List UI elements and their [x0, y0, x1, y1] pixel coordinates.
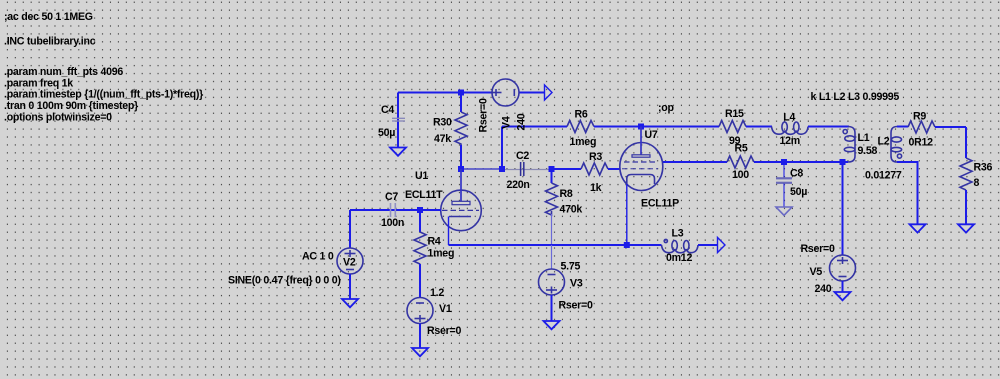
- svg-text:R36: R36: [974, 162, 993, 174]
- svg-text:V1: V1: [439, 303, 452, 315]
- ground R36: [958, 224, 974, 232]
- svg-text:.INC tubelibrary.inc: .INC tubelibrary.inc: [4, 36, 96, 48]
- ground V5: [835, 292, 851, 300]
- svg-text:R6: R6: [575, 109, 588, 121]
- wire V2 to U1 grid: [350, 209, 441, 211]
- svg-text:C7: C7: [385, 191, 398, 203]
- svg-text:V4: V4: [501, 116, 513, 129]
- port flag out V4: [545, 85, 553, 100]
- junction U7 cathode: [624, 242, 630, 248]
- svg-text:1meg: 1meg: [570, 136, 597, 148]
- ground C4: [390, 148, 406, 156]
- capacitor C8: [776, 162, 807, 207]
- svg-text:L1: L1: [858, 132, 870, 144]
- svg-text:1meg: 1meg: [428, 248, 455, 260]
- voltage source V3: [539, 245, 593, 321]
- svg-text:1.2: 1.2: [430, 287, 444, 299]
- resistor R15: [719, 108, 772, 147]
- resistor R36: [960, 127, 993, 224]
- svg-text:V3: V3: [570, 278, 583, 290]
- resistor R3: [581, 151, 620, 194]
- inductor L1: [843, 127, 877, 163]
- junction R8 top: [549, 166, 555, 172]
- ground V3: [544, 321, 560, 329]
- svg-text:240: 240: [516, 113, 528, 130]
- svg-text:.tran 0 100m 90m {timestep}: .tran 0 100m 90m {timestep}: [4, 100, 138, 112]
- svg-text:k L1 L2 L3 0.99995: k L1 L2 L3 0.99995: [811, 91, 900, 103]
- svg-text:.options plotwinsize=0: .options plotwinsize=0: [4, 111, 112, 123]
- wire L4 to L1: [808, 126, 849, 128]
- ground L2: [910, 224, 926, 232]
- svg-text:470k: 470k: [560, 204, 583, 216]
- junction U7 plate: [638, 124, 644, 130]
- svg-text:V2: V2: [343, 257, 356, 269]
- svg-text:C2: C2: [516, 150, 529, 162]
- svg-text:240: 240: [815, 283, 832, 295]
- svg-text:5.75: 5.75: [561, 261, 581, 273]
- voltage source V1: [407, 287, 461, 348]
- svg-text:R15: R15: [725, 108, 744, 120]
- wire anode rail y126.5 left part: [502, 126, 567, 128]
- capacitor C7: [381, 191, 404, 229]
- svg-text:.param num_fft_pts 4096: .param num_fft_pts 4096: [4, 66, 123, 78]
- svg-text:9.58: 9.58: [858, 145, 878, 157]
- junction R30 top: [458, 90, 464, 96]
- ground V2: [342, 299, 358, 307]
- svg-text:50µ: 50µ: [378, 127, 395, 139]
- svg-text:1k: 1k: [590, 182, 602, 194]
- wire U7 screen to R5: [663, 161, 727, 163]
- ground V1: [412, 348, 428, 356]
- voltage source V2: [228, 210, 363, 299]
- inductor L3: [662, 228, 699, 265]
- wire L2 top to R9: [897, 126, 908, 128]
- svg-text:C4: C4: [381, 104, 394, 116]
- inductor L4: [772, 112, 809, 148]
- svg-text:.param freq 1k: .param freq 1k: [4, 77, 73, 89]
- svg-text:0R12: 0R12: [909, 137, 934, 149]
- wire C2 link pale: [502, 169, 552, 171]
- wire V4 to port: [519, 92, 545, 94]
- svg-text:L4: L4: [783, 112, 795, 124]
- svg-text:100: 100: [732, 169, 749, 181]
- junction C8: [781, 159, 787, 165]
- svg-text:100n: 100n: [381, 217, 404, 229]
- port flag out L3: [718, 238, 726, 253]
- svg-text:Rser=0: Rser=0: [801, 243, 835, 255]
- junction C7 R4: [417, 207, 423, 213]
- triode U1: [405, 169, 481, 245]
- svg-text:Rser=0: Rser=0: [559, 300, 593, 312]
- svg-text:R30: R30: [433, 117, 452, 129]
- svg-text:12m: 12m: [780, 135, 800, 147]
- svg-text:R9: R9: [913, 111, 926, 123]
- resistor R4: [414, 210, 454, 298]
- capacitor C2: [507, 150, 530, 191]
- svg-text:50µ: 50µ: [790, 186, 807, 198]
- svg-text:L3: L3: [672, 228, 684, 240]
- capacitor C4: [378, 93, 405, 148]
- svg-text:ECL11T: ECL11T: [405, 189, 443, 201]
- svg-text:C8: C8: [790, 168, 803, 180]
- wire cathode rail y245: [449, 244, 662, 246]
- svg-text:ECL11P: ECL11P: [641, 198, 679, 210]
- svg-text:R8: R8: [560, 188, 573, 200]
- wire L1 to junction: [843, 161, 849, 163]
- svg-text:V5: V5: [810, 266, 823, 278]
- svg-text:8: 8: [974, 177, 980, 189]
- svg-text:R5: R5: [735, 143, 748, 155]
- wire C2 to R3: [552, 168, 582, 170]
- resistor R9: [908, 111, 966, 149]
- ground C8: [776, 207, 792, 215]
- wire L2 bottom to ground: [897, 162, 918, 224]
- svg-text:47k: 47k: [434, 133, 451, 145]
- wire L3 to port: [698, 244, 718, 246]
- svg-text:220n: 220n: [507, 179, 530, 191]
- svg-text:.param timestep {1/((num_fft_p: .param timestep {1/((num_fft_pts-1)*freq…: [4, 89, 203, 101]
- svg-text:R4: R4: [428, 236, 441, 248]
- wire B+ rail left: [398, 92, 492, 94]
- voltage source V5: [801, 243, 856, 295]
- svg-text:Rser=0: Rser=0: [478, 98, 490, 132]
- inductor L2: [865, 127, 902, 182]
- svg-text:0m12: 0m12: [666, 252, 692, 264]
- junction L1 V5: [840, 159, 846, 165]
- svg-text:Rser=0: Rser=0: [427, 325, 461, 337]
- svg-text:U7: U7: [645, 129, 658, 141]
- svg-text:;op: ;op: [658, 102, 674, 114]
- resistor R30: [433, 93, 467, 170]
- resistor R8: [546, 169, 583, 245]
- pentode U7: [620, 127, 679, 246]
- wire mid rail y169: [461, 168, 502, 170]
- voltage source V4: [478, 79, 528, 133]
- junction link bottom: [499, 166, 505, 172]
- junction R30 bottom: [458, 166, 464, 172]
- svg-text:0.01277: 0.01277: [865, 170, 902, 182]
- svg-text:;ac dec 50 1 1MEG: ;ac dec 50 1 1MEG: [4, 11, 93, 23]
- svg-text:R3: R3: [589, 151, 602, 163]
- resistor R5: [727, 143, 843, 182]
- resistor R6: [567, 109, 719, 149]
- svg-text:U1: U1: [415, 170, 428, 182]
- svg-text:L2: L2: [878, 136, 890, 148]
- svg-text:SINE(0 0.47 {freq} 0 0 0): SINE(0 0.47 {freq} 0 0 0): [228, 275, 341, 287]
- wire junction to V5: [842, 162, 844, 255]
- wire vertical link x502: [501, 127, 503, 170]
- svg-text:AC 1 0: AC 1 0: [302, 251, 334, 263]
